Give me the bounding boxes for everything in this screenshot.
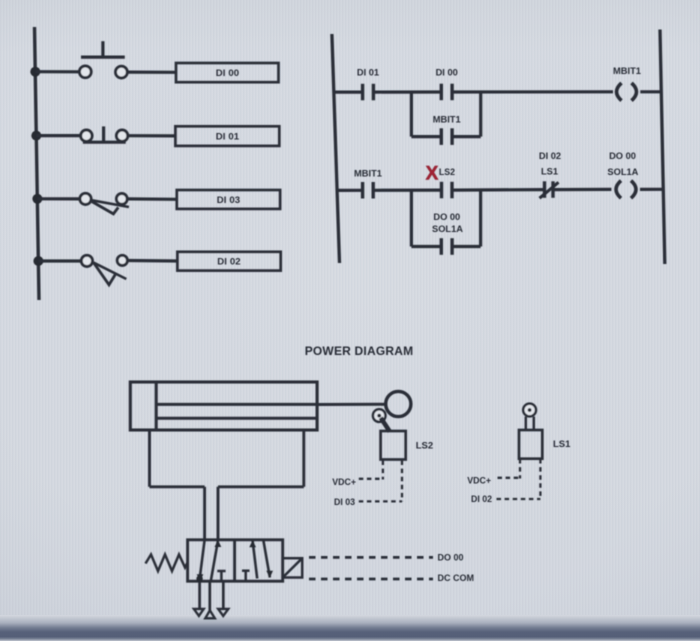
svg-text:DO 00: DO 00 <box>609 151 636 161</box>
svg-text:SOL1A: SOL1A <box>607 167 638 177</box>
wire: ladder right rail <box>660 30 665 265</box>
valve body <box>188 540 283 581</box>
svg-text:DI 01: DI 01 <box>357 67 379 77</box>
node at valve bottom left port <box>196 575 202 581</box>
svg-text:DI 02: DI 02 <box>471 494 492 504</box>
svg-text:DI 02: DI 02 <box>539 151 561 161</box>
node: bus junction row1 <box>30 67 40 77</box>
contact MBIT1 (branch) <box>440 128 443 145</box>
valve left cell flow line 1 <box>200 540 205 576</box>
label box DI 02 <box>177 252 280 271</box>
limit switch row3 lever <box>91 200 129 207</box>
valve right cell flow line 1 <box>253 540 258 579</box>
node: bus junction row2 <box>31 131 41 141</box>
contact DI 01 <box>361 84 364 101</box>
rod end roller (big circle) <box>386 391 411 416</box>
contact DI02/LS1 (NC) <box>543 181 546 198</box>
valve left cell blocked port T <box>217 570 225 573</box>
svg-text:DO 00: DO 00 <box>433 212 460 222</box>
svg-text:VDC+: VDC+ <box>332 477 356 487</box>
wire: row3 switch to box <box>127 197 177 201</box>
coil DO00/SOL1A <box>616 181 621 199</box>
bracket below cylinder <box>148 430 151 487</box>
rung 2 wires <box>336 189 363 192</box>
svg-text:DC COM: DC COM <box>438 573 475 583</box>
svg-text:DI 03: DI 03 <box>334 497 355 507</box>
contact MBIT1 (rung2) <box>361 182 364 199</box>
wire: row3 bus to switch <box>37 197 81 200</box>
pushbutton PB2 (NC) circles <box>81 130 92 141</box>
svg-text:LS1: LS1 <box>553 439 571 450</box>
contact DO00/SOL1A (branch) <box>440 238 443 255</box>
svg-text:POWER DIAGRAM: POWER DIAGRAM <box>305 344 414 358</box>
rung 1 wires <box>334 90 363 93</box>
svg-text:MBIT1: MBIT1 <box>613 66 641 76</box>
svg-text:MBIT1: MBIT1 <box>354 168 382 178</box>
limit switch LS2 assembly <box>373 409 386 422</box>
wire: row4 switch to box <box>127 259 177 263</box>
branch rung2: parallel DO00/SOL1A contact <box>410 190 413 246</box>
exhaust triangle right <box>218 609 228 616</box>
svg-text:DI 01: DI 01 <box>216 132 240 143</box>
limit switch LS (row3) circles <box>80 193 91 204</box>
svg-text:DI 02: DI 02 <box>217 257 240 268</box>
svg-text:MBIT1: MBIT1 <box>433 114 461 124</box>
piston rod lines <box>156 403 317 406</box>
svg-text:VDC+: VDC+ <box>467 476 491 486</box>
coil MBIT1 <box>617 83 622 101</box>
svg-text:LS2: LS2 <box>439 167 455 177</box>
LS2 dashed wires <box>359 461 402 502</box>
pushbutton PB1 (NO) circles <box>79 66 91 78</box>
bottom dark table edge band <box>0 615 700 641</box>
dashed signal lines to DO00 / DC COM <box>309 557 433 579</box>
pushbutton PB2 actuator bar below and stem <box>83 141 126 144</box>
contact DI 00 <box>440 84 443 101</box>
svg-text:DI 00: DI 00 <box>436 67 458 77</box>
wire: row2 bus to switch <box>36 134 80 137</box>
wire: row4 bus to switch <box>38 259 81 262</box>
contact LS2 <box>440 182 443 199</box>
pushbutton PB1 actuator bar and stem <box>81 55 125 58</box>
rod outside cylinder <box>317 403 386 406</box>
limit switch row4 lever <box>94 263 127 279</box>
exhaust triangle middle (up) <box>205 610 215 618</box>
limit switch LS (row4) circles <box>81 255 92 266</box>
exhaust port stems <box>198 581 201 609</box>
svg-text:DI 03: DI 03 <box>217 195 240 206</box>
label box DI 03 <box>177 190 280 209</box>
limit switch LS1 assembly <box>523 404 536 417</box>
valve left cell flow line 2 <box>211 541 218 581</box>
wire: row1 bus to switch <box>35 70 79 73</box>
cylinder piston <box>155 382 158 430</box>
label box DI 01 <box>175 126 279 146</box>
svg-text:SOL1A: SOL1A <box>432 224 463 234</box>
node: bus junction row3 <box>32 194 42 204</box>
wire: ladder left rail <box>332 34 340 263</box>
exhaust triangle left <box>194 609 204 616</box>
label box DI 00 <box>176 63 279 82</box>
wire: row2 switch to box <box>128 134 176 137</box>
pipe down to valve <box>203 487 206 540</box>
valve divider <box>233 540 236 581</box>
valve right cell blocked port T <box>242 569 250 572</box>
valve right cell flow line 2 <box>263 540 270 578</box>
LS1 dashed wires <box>497 459 541 499</box>
svg-text:X: X <box>426 164 439 185</box>
wire: left vertical bus <box>35 27 40 300</box>
wire: row1 switch to box <box>127 70 176 73</box>
branch rung1: parallel MBIT1 contact <box>410 92 413 137</box>
svg-text:LS2: LS2 <box>416 440 433 451</box>
svg-text:DI 00: DI 00 <box>216 68 239 79</box>
svg-text:DO 00: DO 00 <box>438 552 464 562</box>
node: bus junction row4 <box>33 256 43 266</box>
solenoid (right of valve) <box>283 558 303 577</box>
cylinder body <box>130 382 317 430</box>
spring (left of valve) <box>146 555 189 572</box>
svg-text:LS1: LS1 <box>541 166 558 176</box>
